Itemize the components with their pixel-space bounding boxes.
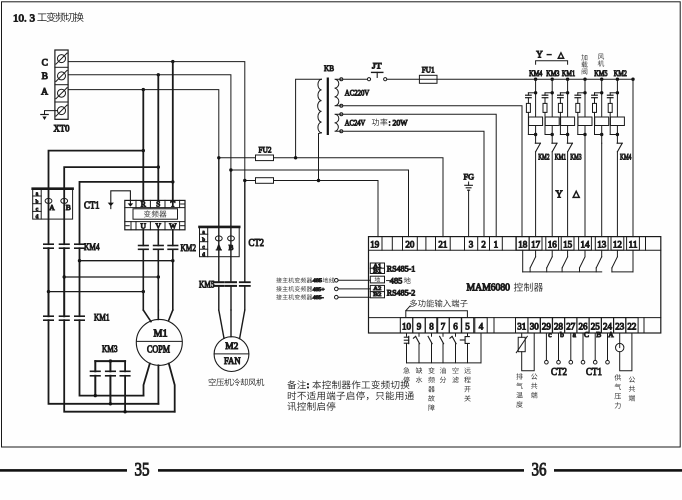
svg-text:KM1: KM1 (562, 69, 575, 78)
svg-text:AC220V: AC220V (345, 89, 370, 98)
switch oil sep (440, 336, 444, 343)
pressure sensor loop 23-22 (619, 333, 621, 343)
svg-text:AC24V: AC24V (345, 118, 366, 127)
motor M1 compressor (136, 319, 182, 365)
svg-text:C: C (42, 58, 48, 68)
svg-text::: : (307, 380, 310, 391)
terminal 9 (413, 318, 425, 333)
svg-text:b: b (202, 237, 205, 243)
svg-text:B: B (66, 203, 71, 212)
terminal 11 (627, 237, 640, 251)
terminal block XT0 (55, 50, 68, 119)
switch air filter (452, 336, 456, 343)
label compressor cooling fan (209, 378, 216, 385)
svg-text:20: 20 (405, 239, 415, 249)
terminal 30 (528, 318, 540, 333)
svg-text:d: d (202, 252, 205, 258)
contactor KM2 main contacts (139, 245, 149, 247)
coil column 1 (534, 78, 537, 81)
svg-text:485: 485 (390, 277, 403, 286)
svg-text:13: 13 (597, 239, 607, 249)
switch lack water (416, 336, 420, 343)
svg-text:KB: KB (324, 63, 334, 73)
phase wire B (68, 75, 231, 170)
input labels vertical (403, 367, 409, 373)
svg-text:d: d (36, 214, 39, 220)
svg-text:KM1: KM1 (555, 152, 566, 161)
RS485 terminal blocks (370, 263, 384, 274)
coil column 4 (583, 78, 586, 81)
svg-text:11: 11 (629, 239, 638, 249)
svg-text:RS485-1: RS485-1 (387, 264, 416, 273)
svg-text:KM3: KM3 (546, 69, 559, 78)
note text (287, 380, 296, 389)
exhaust temp sensor loop 31-30 (521, 333, 523, 337)
terminal 18 (516, 237, 529, 251)
wire bypass-C branch (80, 182, 173, 244)
svg-text:S: S (156, 200, 160, 209)
coil column 6 (616, 78, 619, 81)
svg-text:12: 12 (613, 239, 622, 249)
terminal 31 (516, 318, 528, 333)
svg-text:3: 3 (469, 239, 474, 249)
svg-text:MAM6080: MAM6080 (467, 283, 511, 294)
svg-text:21: 21 (438, 239, 447, 249)
svg-text:△: △ (573, 189, 580, 199)
svg-text:485-: 485- (313, 295, 324, 301)
svg-text:JT: JT (372, 61, 382, 71)
svg-text:M1: M1 (154, 328, 168, 339)
svg-text:KM5: KM5 (199, 279, 215, 290)
svg-text:FAN: FAN (224, 357, 241, 367)
wire AC24V+ to terminal 1 (343, 114, 496, 236)
svg-text:B: B (228, 243, 233, 252)
label fan vertical (598, 54, 604, 60)
svg-text:10: 10 (402, 322, 412, 332)
svg-text:22: 22 (627, 322, 636, 332)
external ground of VFD (111, 191, 131, 203)
phase wire C (68, 62, 245, 181)
wire CT1-B through (63, 189, 65, 245)
node tap C-T (171, 60, 174, 63)
wire AC220V N to terminal 18 (343, 106, 522, 237)
svg-text:KM4: KM4 (529, 69, 542, 78)
svg-text:18: 18 (518, 239, 528, 249)
coil column 3 (566, 78, 569, 81)
KB secondary AC220V (335, 79, 342, 106)
svg-text:B: B (596, 330, 601, 339)
wires U V W outputs (142, 230, 144, 246)
switch vfd fault (428, 336, 432, 343)
switch remote (460, 339, 464, 341)
VFD ground pin arrow (129, 202, 131, 204)
svg-text:CT2: CT2 (551, 366, 567, 378)
terminal 12 (611, 237, 624, 251)
terminal 8 (425, 318, 437, 333)
svg-text:7: 7 (441, 322, 446, 332)
svg-text:FG: FG (464, 172, 475, 182)
internal contact 12-11 (616, 250, 618, 257)
label loading valve (581, 54, 587, 60)
motor M1 top leads (143, 310, 151, 322)
svg-text:Y: Y (556, 190, 563, 201)
digital input wires and switches (406, 333, 408, 336)
page footer rules (0, 469, 127, 472)
svg-text:KM4: KM4 (84, 242, 100, 253)
svg-text:6: 6 (453, 322, 458, 332)
node tap B-S (157, 73, 160, 76)
motor M2 fan (214, 337, 249, 372)
coil column 7 (631, 78, 634, 81)
svg-text:KM2: KM2 (538, 152, 549, 161)
contactor KM4 main contacts (44, 243, 53, 245)
svg-text:5: 5 (465, 322, 470, 332)
top terminal strip (369, 249, 661, 251)
label multifunction input terminals (410, 299, 417, 307)
terminal 16 (546, 237, 559, 251)
RS485 external pigtails (276, 277, 282, 283)
svg-text:C: C (584, 330, 589, 339)
CT2 analog inputs 29-27 (545, 333, 547, 360)
svg-text:FU1: FU1 (422, 65, 435, 75)
terminal 6 (449, 318, 461, 333)
wire S drop (157, 75, 159, 201)
svg-text:9: 9 (417, 322, 422, 332)
svg-text:16: 16 (548, 239, 558, 249)
terminal 14 (579, 237, 592, 251)
svg-text:A: A (608, 330, 614, 339)
terminal 23 (614, 318, 626, 333)
svg-text:1: 1 (494, 239, 499, 249)
svg-text:485: 485 (313, 278, 323, 284)
wire R drop (142, 90, 144, 201)
bottom terminal strip (369, 317, 661, 319)
terminal 22 (626, 318, 638, 333)
svg-text:KM4: KM4 (620, 152, 631, 161)
svg-text:35: 35 (135, 461, 150, 481)
terminal 17 (529, 237, 542, 251)
svg-text:COPM: COPM (147, 344, 170, 355)
wire CT1-B branch (64, 167, 158, 188)
frequency inverter VFD (125, 200, 185, 229)
svg-text:b: b (36, 199, 39, 205)
svg-text:KM3: KM3 (570, 152, 581, 161)
motor M1 bottom leads (144, 364, 150, 396)
svg-text:B2: B2 (373, 292, 381, 298)
switch emergency stop (408, 336, 410, 343)
svg-text:CT1: CT1 (84, 200, 100, 211)
CT1 branch taps (142, 149, 145, 152)
svg-text:17: 17 (531, 239, 541, 249)
svg-text:△: △ (558, 51, 565, 60)
terminal 29 (540, 318, 552, 333)
wire CT1-A branch (49, 151, 144, 189)
svg-text:23: 23 (615, 322, 625, 332)
svg-text:FU2: FU2 (259, 145, 272, 155)
current transformer CT2 (200, 227, 240, 257)
svg-text:19: 19 (370, 239, 380, 249)
svg-text:KM5: KM5 (594, 69, 607, 78)
terminal 13 (595, 237, 608, 251)
KB secondary AC24V (335, 114, 342, 131)
contactor KM1 main contacts (44, 315, 53, 317)
coil column 5 (600, 78, 603, 81)
CT1 analog inputs 26-24 (582, 333, 584, 360)
svg-text:B: B (42, 72, 48, 82)
fan branch through CT2 (218, 158, 220, 282)
svg-text:RS485-2: RS485-2 (387, 289, 416, 298)
controller MAM6080 box (369, 237, 661, 333)
node tap A-R (142, 88, 145, 91)
wire AC24V- to terminal 2 (343, 131, 484, 236)
svg-text:10. 3: 10. 3 (13, 12, 36, 24)
KB primary wires (296, 79, 322, 158)
svg-text:KM2: KM2 (614, 69, 627, 78)
svg-text:: 20W: : 20W (389, 118, 408, 127)
svg-text:KM3: KM3 (102, 344, 118, 355)
terminal 24 (601, 318, 613, 333)
svg-text:b: b (560, 330, 564, 339)
svg-text:Y −: Y − (536, 49, 553, 59)
phase wire A (68, 90, 219, 158)
svg-text:14: 14 (581, 239, 591, 249)
terminal 4 (475, 318, 487, 333)
terminal 15 (561, 237, 574, 251)
terminal 5 (461, 318, 473, 333)
svg-text:2: 2 (481, 239, 486, 249)
svg-text:KM1: KM1 (94, 313, 110, 324)
svg-text:A: A (41, 88, 48, 98)
svg-text:A: A (49, 203, 55, 212)
current transformer CT1 (33, 189, 73, 220)
wire CT1-A through (48, 189, 50, 245)
svg-text:A2: A2 (373, 286, 381, 292)
wire phase B line to terminal 20 (231, 170, 409, 237)
XT0 ground (45, 111, 58, 115)
svg-text:CT2: CT2 (249, 238, 265, 249)
internal relay contacts (522, 250, 524, 272)
svg-text:8: 8 (429, 322, 434, 332)
Y-delta bracket (536, 61, 568, 64)
svg-text:B1: B1 (373, 269, 381, 275)
svg-text:M2: M2 (225, 342, 238, 352)
svg-text:36: 36 (532, 461, 547, 481)
svg-text:485+: 485+ (313, 287, 325, 293)
svg-text:31: 31 (517, 322, 526, 332)
fuse FU2b phase C line to terminal 19 (245, 180, 256, 182)
svg-text:XT0: XT0 (54, 125, 70, 135)
svg-text:30: 30 (530, 322, 540, 332)
wire AC220V L with JT and FU1 to coil bus (343, 78, 368, 80)
svg-text:15: 15 (563, 239, 573, 249)
terminal 26 (577, 318, 589, 333)
inverter links U V W to bypass (78, 259, 81, 262)
motor M2 leads (219, 310, 224, 338)
coil column 2 (551, 78, 554, 81)
terminal 28 (552, 318, 564, 333)
terminal 25 (589, 318, 601, 333)
svg-text:CT1: CT1 (586, 366, 602, 378)
svg-text:4: 4 (479, 322, 484, 332)
terminal 7 (437, 318, 449, 333)
wire T drop (172, 62, 174, 201)
terminal 27 (565, 318, 577, 333)
KB core (327, 78, 329, 136)
wires below KM1 (49, 320, 159, 404)
svg-text:A: A (216, 243, 222, 252)
svg-text:KM2: KM2 (181, 243, 197, 254)
svg-text:T: T (170, 200, 175, 209)
terminal 10 (400, 318, 412, 333)
